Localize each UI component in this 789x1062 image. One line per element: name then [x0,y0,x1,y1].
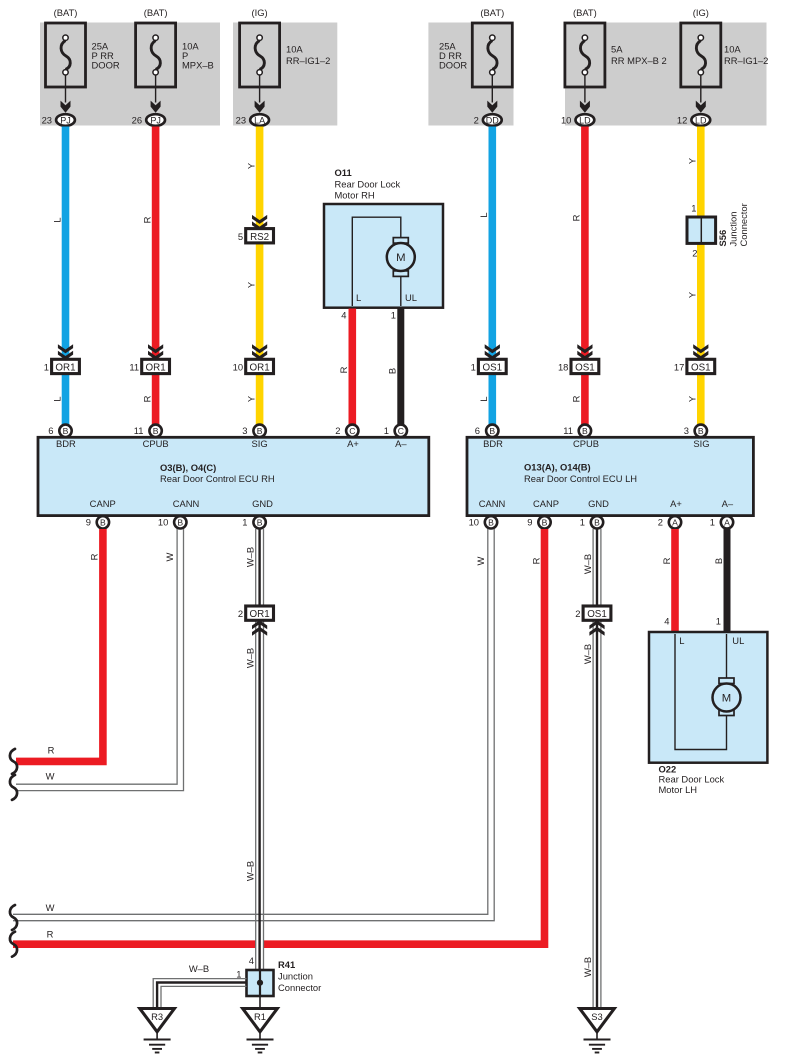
svg-text:11: 11 [563,425,573,436]
svg-text:1: 1 [242,517,247,528]
svg-text:OS1: OS1 [575,363,595,374]
svg-text:Motor RH: Motor RH [335,190,375,201]
svg-text:Y: Y [687,157,698,164]
svg-text:11: 11 [134,425,144,436]
wire W white CANN LH to left edge [13,529,494,921]
svg-text:10A: 10A [724,44,741,55]
svg-text:CANN: CANN [173,498,200,509]
svg-text:4: 4 [664,616,669,627]
svg-text:10: 10 [233,362,243,373]
svg-text:Rear Door Control ECU LH: Rear Door Control ECU LH [524,473,637,484]
svg-text:A–: A– [722,498,734,509]
wire W white CANN RH to left edge [16,529,184,791]
connector OS1 pin 18 [558,344,599,373]
svg-text:B: B [100,517,106,527]
svg-text:O13(A), O14(B): O13(A), O14(B) [524,462,591,473]
wire R red A+ LH to O22 [671,529,679,634]
svg-text:W–B: W–B [245,547,256,567]
ECU LH bottom pin 1 (A) [710,516,733,528]
svg-text:Y: Y [245,162,256,169]
svg-text:BDR: BDR [56,438,76,449]
wire R red O11-L to A+ RH [348,309,356,425]
svg-text:C: C [349,426,355,436]
ECU LH top pin 11 (B) [563,425,591,437]
svg-text:Rear Door Control ECU RH: Rear Door Control ECU RH [160,473,275,484]
svg-text:S3: S3 [591,1011,602,1022]
svg-text:CANP: CANP [533,498,559,509]
svg-text:L: L [679,635,684,646]
svg-text:R: R [141,395,152,402]
svg-text:26: 26 [132,115,142,126]
svg-text:B: B [489,426,495,436]
svg-text:B: B [594,517,600,527]
svg-text:O11: O11 [335,167,352,178]
svg-text:R: R [89,553,100,560]
svg-text:OR1: OR1 [146,363,166,374]
svg-text:A+: A+ [347,438,359,449]
svg-text:(IG): (IG) [693,7,709,18]
svg-text:9: 9 [527,517,532,528]
svg-text:B: B [177,517,183,527]
svg-text:1: 1 [471,362,476,373]
svg-text:W: W [475,556,486,565]
ECU RH top pin 1 (C) [384,425,407,437]
svg-text:5: 5 [238,231,243,242]
svg-text:M: M [396,252,405,264]
svg-text:PJ: PJ [150,115,161,125]
svg-text:CANN: CANN [479,498,506,509]
ECU LH bottom pin 1 (B) [580,516,603,528]
svg-text:(BAT): (BAT) [54,7,78,18]
svg-text:1: 1 [710,517,715,528]
wire L blue DD2 to BDR LH [488,127,496,360]
svg-text:OR1: OR1 [250,609,270,620]
svg-text:(BAT): (BAT) [573,7,597,18]
svg-text:B: B [153,426,159,436]
svg-text:1: 1 [580,517,585,528]
svg-text:CPUB: CPUB [573,438,599,449]
svg-text:W: W [164,552,175,561]
svg-text:W: W [46,771,55,782]
svg-text:R1: R1 [254,1011,266,1022]
svg-text:Junction: Junction [278,971,313,982]
continuation squiggle CANP RH [10,749,17,774]
wire B black A- LH to O22 [724,529,731,634]
fuse 25A P RR DOOR (BAT) [42,7,120,126]
svg-text:DOOR: DOOR [92,59,120,70]
svg-text:Y: Y [687,395,698,402]
fuse 5A RR MPX–B 2 (BAT) [561,7,667,126]
svg-text:(BAT): (BAT) [480,7,504,18]
svg-text:2: 2 [335,425,340,436]
svg-text:A–: A– [395,438,407,449]
wire W-B R41 to R3 ground [153,979,246,1008]
svg-text:(BAT): (BAT) [144,7,168,18]
svg-text:23: 23 [236,115,246,126]
svg-text:10: 10 [561,115,571,126]
svg-text:6: 6 [48,425,53,436]
connector OR1 pin 11 [129,344,169,373]
svg-text:A: A [724,517,730,527]
svg-text:B: B [257,517,263,527]
svg-text:UL: UL [405,292,417,303]
svg-text:10: 10 [469,517,479,528]
svg-text:O3(B), O4(C): O3(B), O4(C) [160,462,216,473]
svg-text:GND: GND [588,498,609,509]
wire Y yellow LD12 to SIG LH [697,127,705,360]
svg-text:R: R [47,929,54,940]
ground R3 [140,1009,175,1053]
relay block background left [40,23,220,126]
svg-text:2: 2 [238,608,243,619]
svg-text:A: A [672,517,678,527]
svg-text:L: L [478,396,489,401]
ECU LH bottom pin 9 (B) [527,516,550,528]
svg-text:4: 4 [341,310,346,321]
svg-text:18: 18 [558,362,568,373]
svg-text:B: B [257,426,263,436]
svg-text:B: B [63,426,69,436]
svg-text:R: R [141,216,152,223]
junction connector R41 [236,955,321,996]
ECU RH top pin 2 (C) [335,425,358,437]
svg-text:Connector: Connector [738,203,749,246]
svg-text:B: B [713,558,724,564]
wire R red CANP RH to left edge [16,529,103,761]
svg-text:DD: DD [486,115,499,125]
svg-text:17: 17 [674,362,684,373]
motor O11 Rear Door Lock Motor RH [324,167,443,308]
junction connector S56 [687,203,749,259]
fuse 10A P MPX–B (BAT) [132,7,214,126]
svg-text:UL: UL [732,635,744,646]
svg-text:S56: S56 [717,230,728,247]
svg-text:B: B [387,368,398,374]
ECU RH bottom pin 10 (B) [158,516,187,528]
fuse 25A D RR DOOR (BAT) [439,7,512,126]
svg-text:RR–IG1–2: RR–IG1–2 [724,55,768,66]
svg-text:2: 2 [474,115,479,126]
svg-text:Y: Y [245,395,256,402]
svg-text:2: 2 [692,248,697,259]
relay block background D RR DOOR [428,23,513,126]
svg-text:L: L [51,396,62,401]
wire R41 to R1 ground [259,996,261,1008]
svg-text:Connector: Connector [278,982,321,993]
motor O22 Rear Door Lock Motor LH [649,632,767,795]
svg-text:2: 2 [575,608,580,619]
continuation squiggle CANN LH [10,905,17,930]
svg-text:3: 3 [242,425,247,436]
svg-text:W–B: W–B [582,554,593,574]
svg-text:A+: A+ [670,498,682,509]
ECU RH top pin 6 (B) [48,425,71,437]
svg-text:SIG: SIG [693,438,709,449]
svg-text:W–B: W–B [582,644,593,664]
svg-text:10A: 10A [286,44,303,55]
svg-text:L: L [51,217,62,222]
relay block background IG left [233,23,337,126]
wire R red LD10 to CPUB LH [581,127,589,360]
continuation squiggle CANP LH [10,932,17,957]
wire Y yellow LA23 to SIG RH [256,127,264,229]
svg-text:W–B: W–B [245,648,256,668]
svg-text:R: R [571,395,582,402]
svg-text:RS2: RS2 [250,232,269,243]
svg-text:R: R [661,557,672,564]
svg-text:R41: R41 [278,959,295,970]
svg-text:LD: LD [695,115,707,125]
connector OR1 pin 1 [44,344,80,373]
svg-text:1: 1 [236,969,241,980]
svg-text:3: 3 [684,425,689,436]
ECU O3(B) O4(C) Rear Door Control ECU RH [38,437,429,515]
svg-text:1: 1 [44,362,49,373]
svg-text:SIG: SIG [252,438,268,449]
svg-text:Rear Door Lock: Rear Door Lock [335,178,401,189]
ground S3 [580,1009,615,1053]
svg-text:4: 4 [249,955,254,966]
svg-text:1: 1 [384,425,389,436]
ECU LH top pin 6 (B) [475,425,499,437]
svg-text:LD: LD [579,115,591,125]
svg-text:Y: Y [687,291,698,298]
svg-text:R3: R3 [151,1011,163,1022]
svg-text:W–B: W–B [245,861,256,881]
svg-text:10: 10 [158,517,168,528]
svg-text:CPUB: CPUB [143,438,169,449]
svg-text:6: 6 [475,425,480,436]
svg-text:R: R [48,745,55,756]
ECU LH top pin 3 (B) [684,425,707,437]
svg-text:RR MPX–B 2: RR MPX–B 2 [611,55,667,66]
svg-text:DOOR: DOOR [439,59,467,70]
connector OS1 pin 2 [575,606,611,636]
svg-text:LA: LA [254,115,265,125]
svg-text:GND: GND [252,498,273,509]
svg-text:11: 11 [129,362,139,373]
svg-text:W–B: W–B [189,963,209,974]
svg-text:PJ: PJ [60,115,71,125]
svg-text:(IG): (IG) [252,7,268,18]
svg-text:Y: Y [245,281,256,288]
fuse 10A RR–IG1–2 (IG) [236,7,331,126]
ECU RH bottom pin 1 (B) [242,516,266,528]
svg-text:23: 23 [42,115,52,126]
svg-text:BDR: BDR [483,438,503,449]
ECU LH bottom pin 10 (B) [469,516,498,528]
svg-text:R: R [571,214,582,221]
connector RS2 pin 5 [238,215,274,243]
svg-text:B: B [698,426,704,436]
svg-text:R: R [338,366,349,373]
svg-text:OR1: OR1 [55,363,75,374]
svg-text:1: 1 [716,616,721,627]
svg-text:L: L [478,212,489,217]
wire R red PJ26 to CPUB RH [152,127,160,360]
ECU RH top pin 11 (B) [134,425,162,437]
svg-text:W–B: W–B [582,957,593,977]
wire W-B GND RH down to R41 [256,529,264,970]
svg-text:R: R [530,557,541,564]
wire L blue PJ23 to BDR RH [62,127,70,360]
svg-text:OR1: OR1 [250,363,270,374]
svg-text:9: 9 [86,517,91,528]
svg-text:B: B [488,517,494,527]
ECU RH top pin 3 (B) [242,425,266,437]
svg-text:MPX–B: MPX–B [182,59,214,70]
svg-text:OS1: OS1 [587,609,607,620]
svg-text:OS1: OS1 [691,363,711,374]
continuation squiggle CANN RH [10,775,17,800]
connector OS1 pin 1 [471,344,507,373]
wire B black O11-UL to A- RH [397,309,404,425]
ECU LH bottom pin 2 (A) [658,516,681,528]
svg-text:OS1: OS1 [482,363,502,374]
svg-text:2: 2 [658,517,663,528]
svg-text:M: M [722,693,731,705]
relay block background right [565,23,767,126]
wire R red CANP LH to left edge [13,529,545,944]
svg-text:C: C [398,426,404,436]
ECU O13(A) O14(B) Rear Door Control ECU LH [467,437,753,515]
svg-text:Motor LH: Motor LH [659,784,698,795]
svg-text:W: W [46,902,55,913]
connector OR1 pin 2 [238,606,274,636]
svg-text:L: L [356,292,361,303]
svg-text:B: B [582,426,588,436]
svg-text:RR–IG1–2: RR–IG1–2 [286,55,330,66]
ECU RH bottom pin 9 (B) [86,516,109,528]
svg-text:1: 1 [691,203,696,214]
svg-text:12: 12 [677,115,687,126]
connector OS1 pin 17 [674,344,715,373]
fuse 10A RR–IG1–2 (IG) [677,7,768,126]
svg-text:B: B [542,517,548,527]
wire W-B GND LH down to S3 [593,529,601,1008]
svg-text:1: 1 [391,310,396,321]
connector OR1 pin 10 [233,344,274,373]
ground R1 [243,1009,278,1053]
svg-text:CANP: CANP [90,498,116,509]
svg-text:5A: 5A [611,44,623,55]
